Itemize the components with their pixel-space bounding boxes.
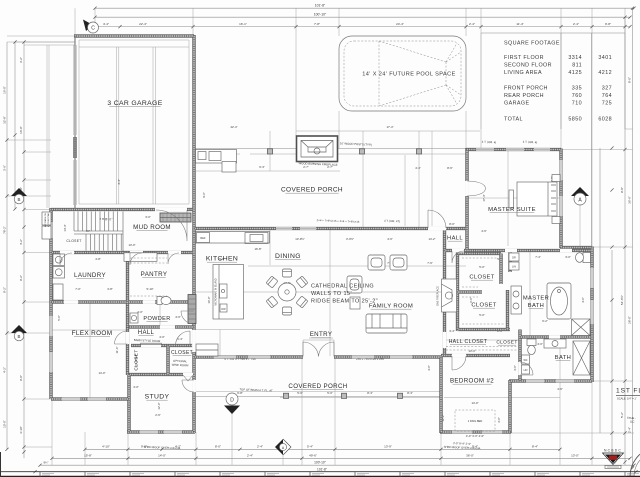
pantry shelves xyxy=(130,258,167,296)
svg-text:4 T. (OR. 4): 4 T. (OR. 4) xyxy=(523,140,538,145)
door mud-hall xyxy=(168,253,179,264)
svg-text:LAUNDRY: LAUNDRY xyxy=(74,272,106,279)
svg-text:36'-6": 36'-6" xyxy=(628,196,632,204)
svg-text:8'-0": 8'-0" xyxy=(628,77,632,83)
svg-text:WALLS TO 15': WALLS TO 15' xyxy=(311,291,352,297)
svg-text:54'-6½": 54'-6½" xyxy=(620,295,624,305)
svg-text:SECOND FLOOR: SECOND FLOOR xyxy=(504,63,552,69)
outdoor kitchen counter xyxy=(196,150,237,173)
wine ref box xyxy=(196,344,218,356)
svg-text:2'-4": 2'-4" xyxy=(628,427,632,433)
door rear porch xyxy=(428,210,446,228)
walls light core layer xyxy=(51,35,592,433)
svg-text:C: C xyxy=(91,26,95,32)
svg-text:28'-0": 28'-0" xyxy=(628,316,632,324)
svg-text:32'-8": 32'-8" xyxy=(3,116,7,124)
svg-text:8'-0": 8'-0" xyxy=(215,444,221,448)
dining table xyxy=(278,283,296,301)
door laundry xyxy=(60,253,72,265)
svg-text:1ST FLO: 1ST FLO xyxy=(616,388,640,395)
svg-text:13'-0": 13'-0" xyxy=(571,453,579,457)
door pantry xyxy=(130,253,142,265)
svg-text:CLOSET: CLOSET xyxy=(471,303,496,309)
svg-text:FRONT PORCH: FRONT PORCH xyxy=(504,86,548,92)
svg-text:POWDER: POWDER xyxy=(143,316,170,322)
svg-text:14' X 24' FUTURE POOL SPACE: 14' X 24' FUTURE POOL SPACE xyxy=(362,72,455,78)
svg-text:3'-0": 3'-0" xyxy=(565,255,571,259)
svg-text:CLOSET: CLOSET xyxy=(134,349,140,370)
svg-text:4'-0": 4'-0" xyxy=(537,342,543,346)
svg-text:101'-8": 101'-8" xyxy=(315,3,326,7)
island sink xyxy=(220,284,228,298)
svg-text:101'-8": 101'-8" xyxy=(317,467,327,471)
svg-text:10'-0": 10'-0" xyxy=(207,296,211,303)
svg-text:4'-10": 4'-10" xyxy=(102,444,110,448)
windows xyxy=(214,356,236,359)
walls hatch speckle layer xyxy=(51,35,592,433)
svg-text:16'-0": 16'-0" xyxy=(3,86,7,94)
door bath xyxy=(520,362,533,375)
svg-text:COVERED PORCH: COVERED PORCH xyxy=(288,383,347,390)
svg-text:8'-4": 8'-4" xyxy=(407,391,413,395)
extension lines left xyxy=(7,36,75,447)
svg-text:6'-2": 6'-2" xyxy=(542,319,548,323)
svg-text:2'-4": 2'-4" xyxy=(573,22,579,26)
dimension line left outer xyxy=(6,42,8,449)
svg-text:9'-2": 9'-2" xyxy=(19,275,23,281)
svg-text:2'-4": 2'-4" xyxy=(469,22,475,26)
svg-text:KITCHEN: KITCHEN xyxy=(206,256,238,263)
svg-text:4'-4": 4'-4" xyxy=(103,22,109,26)
front porch edge line xyxy=(196,396,441,398)
walls dark layer xyxy=(51,35,592,433)
svg-text:D: D xyxy=(230,398,234,404)
svg-text:9'-6": 9'-6" xyxy=(202,192,206,198)
svg-text:13'-9½": 13'-9½" xyxy=(295,237,304,241)
svg-text:811: 811 xyxy=(572,63,582,69)
svg-text:CLOSET: CLOSET xyxy=(66,239,81,243)
svg-text:FIRST FLOOR: FIRST FLOOR xyxy=(504,55,544,61)
svg-text:HALL: HALL xyxy=(447,236,463,242)
svg-text:4'-0" 3'-0" 4'-0": 4'-0" 3'-0" 4'-0" xyxy=(466,434,484,438)
svg-text:100'-10": 100'-10" xyxy=(314,460,326,464)
interior dim line family/dining xyxy=(196,330,300,358)
svg-text:REF: REF xyxy=(200,236,206,240)
dimension line left inner xyxy=(23,42,25,458)
front porch beam line xyxy=(196,391,441,393)
stairs xyxy=(74,212,123,253)
range xyxy=(245,233,268,244)
svg-text:9¾": 9¾" xyxy=(44,460,49,464)
bedroom2 bed dashed xyxy=(455,410,495,431)
svg-text:MUD ROOM: MUD ROOM xyxy=(133,224,171,231)
marker left lower xyxy=(11,325,27,341)
svg-text:4'-10": 4'-10" xyxy=(19,426,23,434)
svg-text:A/C PADS ON: A/C PADS ON xyxy=(44,213,47,227)
svg-text:5'-0": 5'-0" xyxy=(57,315,61,321)
svg-text:78'-2": 78'-2" xyxy=(3,226,7,234)
svg-text:16'-1": 16'-1" xyxy=(239,22,247,26)
svg-text:CLOSET: CLOSET xyxy=(469,275,494,281)
master tub xyxy=(547,283,571,319)
pool apron side lines xyxy=(339,111,466,148)
door master hall xyxy=(452,251,464,263)
svg-text:CATHEDRAL CEILING: CATHEDRAL CEILING xyxy=(311,284,374,290)
svg-text:5'-0": 5'-0" xyxy=(479,265,485,269)
dining chairs xyxy=(283,269,292,277)
svg-text:3401: 3401 xyxy=(598,55,612,61)
svg-text:5'-0": 5'-0" xyxy=(327,391,333,395)
extension lines top xyxy=(75,8,625,247)
svg-text:3'-0": 3'-0" xyxy=(497,417,501,423)
dimension line top 100-10 xyxy=(95,16,630,18)
svg-text:7'-4": 7'-4" xyxy=(535,255,541,259)
gas fireplace xyxy=(442,279,457,312)
svg-text:REAR PORCH: REAR PORCH xyxy=(504,93,544,99)
kitchen island xyxy=(213,265,244,320)
dimension line top outer 101-8 xyxy=(95,7,634,9)
front porch posts xyxy=(283,393,288,398)
side chair left xyxy=(347,276,362,293)
svg-text:HALL CLOSET: HALL CLOSET xyxy=(449,339,488,345)
door garage to mudroom xyxy=(156,210,187,241)
svg-text:13'-9": 13'-9" xyxy=(384,444,392,448)
door master double xyxy=(467,181,486,196)
sofa xyxy=(366,314,407,333)
svg-text:2'-6": 2'-6" xyxy=(155,413,161,417)
hall bath shower xyxy=(573,341,590,375)
svg-text:14'-0": 14'-0" xyxy=(158,453,166,457)
svg-text:24'-4": 24'-4" xyxy=(396,22,404,26)
laundry counter xyxy=(53,284,63,300)
svg-text:4'-6": 4'-6" xyxy=(481,229,487,233)
svg-text:MASTER SUITE: MASTER SUITE xyxy=(488,207,536,213)
svg-text:CLOSET: CLOSET xyxy=(171,350,193,356)
svg-text:3'-6": 3'-6" xyxy=(3,165,7,171)
svg-text:4125: 4125 xyxy=(568,70,582,76)
svg-text:10'-0": 10'-0" xyxy=(3,420,7,428)
misc interior dim lines right wing xyxy=(444,251,560,398)
powder sink xyxy=(130,313,138,323)
hall bath vanity xyxy=(544,339,566,348)
svg-text:©THE...: ©THE... xyxy=(627,416,637,420)
door closet2 bifold xyxy=(183,375,193,381)
svg-text:4'-6": 4'-6" xyxy=(387,237,393,241)
master bench xyxy=(509,190,514,208)
svg-text:9'-8": 9'-8" xyxy=(620,187,624,193)
svg-text:11'-4": 11'-4" xyxy=(516,22,523,26)
svg-text:3'-0": 3'-0" xyxy=(513,365,517,371)
svg-text:36'-0": 36'-0" xyxy=(466,453,474,457)
svg-text:14'-0": 14'-0" xyxy=(471,401,478,405)
svg-text:3'-2": 3'-2" xyxy=(19,57,23,63)
svg-text:DR: DR xyxy=(512,257,516,260)
marker C top garage xyxy=(83,20,99,34)
svg-text:LIVING AREA: LIVING AREA xyxy=(504,70,542,76)
extension lines right xyxy=(510,129,634,433)
porch posts xyxy=(267,149,272,154)
dimension line top segments xyxy=(88,26,630,28)
svg-text:8'-4": 8'-4" xyxy=(367,391,373,395)
svg-text:2'-7": 2'-7" xyxy=(303,165,309,169)
svg-text:16'-0": 16'-0" xyxy=(19,126,23,134)
left wing interior dim xyxy=(51,302,194,399)
svg-text:5'-0": 5'-0" xyxy=(297,391,303,395)
svg-text:11'-4": 11'-4" xyxy=(115,347,119,354)
rear porch edge line with posts xyxy=(193,148,467,150)
powder toilet xyxy=(157,297,162,305)
svg-text:764: 764 xyxy=(602,93,612,99)
interior dim verticals center xyxy=(270,131,419,228)
svg-text:FLEX ROOM: FLEX ROOM xyxy=(72,330,113,337)
svg-text:SCALE: 1/4" = 1': SCALE: 1/4" = 1' xyxy=(617,397,637,401)
svg-text:LIN: LIN xyxy=(524,369,528,372)
svg-text:3314: 3314 xyxy=(568,55,582,61)
washer dryer xyxy=(53,254,65,266)
svg-text:7'-8": 7'-8" xyxy=(314,22,320,26)
side table xyxy=(350,297,360,309)
master toilet xyxy=(576,253,591,263)
svg-text:3'-0": 3'-0" xyxy=(145,215,151,219)
svg-text:4" CONC PAD: 4" CONC PAD xyxy=(47,213,50,227)
hall bath toilet xyxy=(527,339,536,355)
svg-text:760: 760 xyxy=(572,93,582,99)
door wine closet xyxy=(176,331,191,346)
svg-text:8'-6": 8'-6" xyxy=(447,166,453,170)
svg-text:4'-4": 4'-4" xyxy=(415,166,421,170)
svg-text:6'-3": 6'-3" xyxy=(259,165,265,169)
svg-text:14'-2": 14'-2" xyxy=(428,237,435,241)
kitchen west cabinets xyxy=(188,295,196,324)
svg-text:6028: 6028 xyxy=(598,117,612,123)
closet rods dashed xyxy=(462,258,504,324)
svg-text:WINE ROOM: WINE ROOM xyxy=(172,363,190,368)
island dishwasher xyxy=(220,304,227,312)
svg-text:GARAGE: GARAGE xyxy=(504,101,529,107)
future pool xyxy=(339,36,466,111)
dimension line bottom rows xyxy=(85,448,560,450)
svg-text:COVERED PORCH: COVERED PORCH xyxy=(281,187,343,194)
square footage table xyxy=(481,33,625,250)
svg-text:MICROWAVE IN ISLAND: MICROWAVE IN ISLAND xyxy=(215,278,218,305)
mudroom bench right xyxy=(160,213,191,222)
svg-text:3'-0" 8'-4" 3'-0": 3'-0" 8'-4" 3'-0" xyxy=(453,441,471,446)
svg-text:4'-6": 4'-6" xyxy=(175,315,181,319)
svg-text:4'-4": 4'-4" xyxy=(117,179,121,185)
svg-text:5'-10": 5'-10" xyxy=(146,287,153,291)
svg-text:CLOSET: CLOSET xyxy=(496,340,517,346)
svg-text:WC: WC xyxy=(524,359,528,362)
svg-text:2'-4": 2'-4" xyxy=(257,444,263,448)
svg-text:12'-0": 12'-0" xyxy=(157,402,161,409)
svg-text:4 T. (OR. 4): 4 T. (OR. 4) xyxy=(482,140,497,145)
svg-text:4'-2": 4'-2" xyxy=(19,239,23,245)
svg-text:4'-6": 4'-6" xyxy=(557,387,563,391)
svg-text:8'-4": 8'-4" xyxy=(532,444,538,448)
interior dim line rear porch xyxy=(196,131,480,226)
svg-text:SQUARE FOOTAGE: SQUARE FOOTAGE xyxy=(504,41,560,47)
svg-text:NCBDC: NCBDC xyxy=(604,449,622,453)
svg-text:9'-0": 9'-0" xyxy=(19,375,23,381)
svg-text:9'-2": 9'-2" xyxy=(3,287,7,293)
dimension line right outer xyxy=(632,8,634,468)
svg-text:PANTRY: PANTRY xyxy=(141,271,168,278)
svg-text:2'-4": 2'-4" xyxy=(247,453,253,457)
hall bath wc lin xyxy=(522,355,530,374)
svg-text:17'-4": 17'-4" xyxy=(482,194,486,201)
svg-text:5'-0": 5'-0" xyxy=(479,313,485,317)
svg-text:5'-2": 5'-2" xyxy=(620,412,624,418)
linen boxes xyxy=(509,253,519,270)
rear porch inner line xyxy=(193,153,467,155)
hall closet rods xyxy=(446,347,518,351)
svg-text:STUDY: STUDY xyxy=(145,394,170,401)
porch wood burning fireplace xyxy=(297,136,338,162)
door entry double xyxy=(303,342,334,357)
svg-text:1 KING BED: 1 KING BED xyxy=(468,419,483,423)
svg-text:16'-8": 16'-8" xyxy=(254,247,261,251)
svg-text:ENTRY: ENTRY xyxy=(310,331,333,338)
svg-text:DINING: DINING xyxy=(275,253,301,260)
svg-text:GAS FIREPLACE: GAS FIREPLACE xyxy=(437,286,440,306)
svg-text:6 R @ 11": 6 R @ 11" xyxy=(100,217,113,222)
svg-text:BEDROOM #2: BEDROOM #2 xyxy=(450,378,494,385)
svg-text:4 T. (OR. 4T): 4 T. (OR. 4T) xyxy=(384,219,400,224)
svg-text:4'-0": 4'-0" xyxy=(581,297,585,303)
svg-text:8'-0": 8'-0" xyxy=(449,222,455,226)
garage interior lines xyxy=(79,40,189,204)
svg-text:MASTER: MASTER xyxy=(523,296,549,302)
master vanity xyxy=(511,286,522,314)
svg-text:B: B xyxy=(18,334,21,339)
svg-text:710: 710 xyxy=(572,101,582,107)
entry vestibule side lines xyxy=(303,340,334,356)
door study xyxy=(182,380,194,392)
svg-text:49'-6": 49'-6" xyxy=(309,453,317,457)
svg-text:17'-4": 17'-4" xyxy=(386,125,393,129)
svg-text:335: 335 xyxy=(572,86,582,92)
svg-text:13'-0": 13'-0" xyxy=(128,243,135,247)
marker B left xyxy=(11,188,27,204)
svg-text:6'-8": 6'-8" xyxy=(237,391,243,395)
svg-text:BATH: BATH xyxy=(528,303,544,309)
svg-text:9'-8": 9'-8" xyxy=(605,22,611,26)
svg-text:4'-2": 4'-2" xyxy=(3,367,7,373)
kitchen counter top xyxy=(196,232,270,244)
svg-text:15'-8": 15'-8" xyxy=(84,453,92,457)
svg-text:22'-4": 22'-4" xyxy=(139,22,147,26)
svg-text:HALL: HALL xyxy=(138,330,155,336)
marker master xyxy=(571,187,589,205)
svg-text:LLC: LLC xyxy=(630,421,635,424)
title block strip xyxy=(0,471,640,473)
NCBDC logo xyxy=(603,449,624,469)
master shower xyxy=(572,319,591,336)
door flex xyxy=(115,331,128,344)
ac pads xyxy=(42,212,51,225)
svg-text:327: 327 xyxy=(602,86,612,92)
door powder xyxy=(181,311,194,324)
garage left thin wall xyxy=(74,36,76,209)
marker A bottom xyxy=(275,439,291,455)
svg-text:7'-0": 7'-0" xyxy=(75,287,81,291)
svg-text:22'-4": 22'-4" xyxy=(230,125,237,129)
svg-text:3'-8": 3'-8" xyxy=(107,287,113,291)
svg-text:4'-8": 4'-8" xyxy=(95,257,101,261)
corner stamp circle xyxy=(630,446,640,477)
svg-text:4'-0": 4'-0" xyxy=(133,385,139,389)
door opening gaps xyxy=(155,208,187,212)
svg-text:4'-0": 4'-0" xyxy=(427,365,431,371)
svg-text:RIDGE BEAM TO 25'-2": RIDGE BEAM TO 25'-2" xyxy=(311,299,378,305)
svg-text:3 CAR GARAGE: 3 CAR GARAGE xyxy=(107,100,162,107)
family armchair 2 xyxy=(390,255,407,270)
svg-text:100'-10": 100'-10" xyxy=(314,12,327,16)
svg-text:4212: 4212 xyxy=(598,70,612,76)
refrigerator xyxy=(197,233,210,243)
svg-text:LIN: LIN xyxy=(512,266,516,269)
svg-text:B: B xyxy=(18,197,21,202)
svg-text:3'-4": 3'-4" xyxy=(449,329,455,333)
svg-text:14'-4": 14'-4" xyxy=(63,224,67,231)
svg-text:13'-4": 13'-4" xyxy=(468,349,475,353)
marker D porch xyxy=(224,393,240,414)
bench with lockers xyxy=(124,253,157,261)
family armchair 1 xyxy=(368,255,385,270)
master bed xyxy=(517,175,560,224)
svg-text:BATH: BATH xyxy=(555,355,571,361)
svg-text:5850: 5850 xyxy=(568,117,582,123)
svg-text:5'-4": 5'-4" xyxy=(307,444,313,448)
svg-text:725: 725 xyxy=(602,101,612,107)
extension lines bottom xyxy=(52,357,592,465)
master suite interior dim xyxy=(467,149,580,251)
barn door slider xyxy=(140,343,162,344)
svg-text:14'-0": 14'-0" xyxy=(98,371,105,375)
svg-text:7'-6": 7'-6" xyxy=(427,261,433,265)
svg-text:TOTAL: TOTAL xyxy=(504,117,523,123)
door bedroom2 xyxy=(452,356,466,370)
svg-text:3'-9½": 3'-9½" xyxy=(346,237,354,241)
